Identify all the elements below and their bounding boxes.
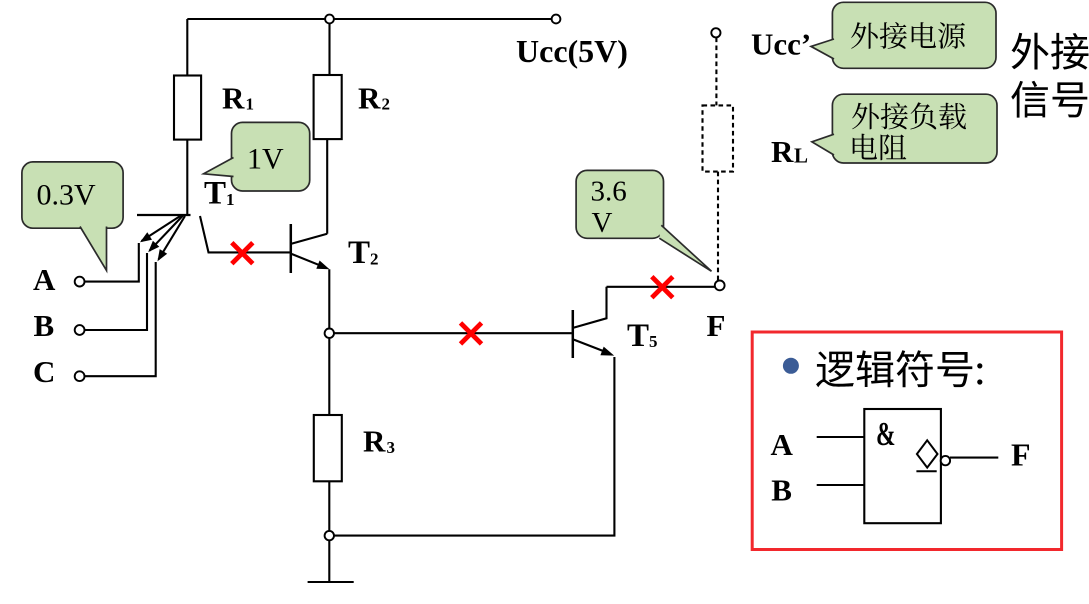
logic symbol panel frame	[752, 332, 1061, 550]
gate output wire	[950, 457, 998, 459]
svg-text:R: R	[771, 134, 794, 169]
open-collector diamond	[917, 440, 938, 467]
svg-text:T: T	[348, 235, 370, 271]
AND gate box U1	[864, 409, 941, 523]
svg-text:1: 1	[246, 95, 255, 114]
wire input B	[84, 253, 147, 330]
resistor R3	[314, 415, 342, 481]
T1 emitter 1	[142, 216, 182, 242]
gate input B wire	[817, 484, 865, 486]
label 外接负载	[852, 103, 879, 130]
T2 collector	[292, 234, 327, 244]
svg-text:1: 1	[226, 190, 235, 209]
T1 emitter 3	[159, 216, 186, 260]
T1 emitter 2	[150, 216, 184, 251]
label colon	[977, 363, 982, 368]
svg-text:R: R	[363, 424, 386, 459]
svg-text:A: A	[33, 262, 56, 297]
ground	[308, 581, 354, 583]
resistor R1	[174, 76, 201, 140]
wire N1 to R3	[328, 338, 330, 415]
callout wai-jie-fu-zai-dian-zu (external load resistor)	[832, 94, 997, 163]
svg-text:3.6: 3.6	[591, 176, 627, 208]
svg-text:B: B	[34, 308, 55, 343]
wire T5 emitter return	[334, 357, 614, 536]
svg-text:F: F	[707, 308, 726, 343]
node N2	[325, 531, 334, 540]
wire N1 to T5 base	[334, 332, 572, 334]
fault mark X2	[461, 323, 482, 344]
svg-text:&: &	[876, 416, 896, 453]
svg-text:2: 2	[382, 95, 391, 114]
terminal F	[715, 281, 725, 291]
wire R1 top lead	[186, 19, 188, 76]
T5 emitter	[574, 340, 610, 354]
svg-text:2: 2	[370, 250, 379, 269]
wire R2 top lead	[328, 23, 330, 75]
wire R2 bottom lead to T2 collector	[326, 139, 328, 234]
label 外接电源	[851, 22, 878, 49]
svg-text:B: B	[771, 473, 792, 508]
gate input A wire	[817, 436, 865, 438]
callout 1V	[232, 122, 310, 191]
bullet	[783, 358, 799, 374]
T5 collector	[574, 287, 607, 328]
terminal C	[75, 371, 85, 381]
callout 0.3V	[22, 162, 123, 228]
T1 collector lead	[200, 216, 290, 252]
wire R1 bottom lead	[186, 140, 188, 215]
terminal Ucc&apos;	[711, 28, 720, 37]
node top rail junction	[325, 15, 334, 24]
fault mark X1	[232, 243, 253, 264]
wire input A	[84, 243, 138, 282]
wire T2 emitter down	[328, 269, 330, 328]
dashed wire Ucc to RL	[715, 38, 717, 106]
svg-text:1V: 1V	[247, 143, 284, 176]
svg-text:Ucc’: Ucc’	[751, 27, 811, 62]
transistor T2 base bar	[290, 224, 293, 273]
svg-text:3: 3	[387, 438, 396, 457]
inverter bubble	[941, 456, 950, 465]
terminal B	[75, 325, 85, 335]
dashed wire RL to F	[717, 172, 719, 281]
wire top supply rail	[187, 18, 552, 20]
wire R3 to N2	[328, 481, 330, 531]
transistor T1 base bar	[137, 214, 191, 216]
svg-text:Ucc(5V): Ucc(5V)	[516, 33, 628, 69]
wire T5 collector to F	[607, 286, 715, 288]
ground lead	[328, 540, 330, 582]
resistor R2	[314, 75, 342, 139]
svg-text:R: R	[358, 81, 381, 116]
svg-text:T: T	[204, 176, 226, 212]
transistor T5 base bar	[572, 310, 575, 358]
callout wai-jie-dian-yuan (external power)	[832, 2, 996, 68]
svg-text:V: V	[592, 207, 613, 239]
wire input C	[84, 262, 155, 376]
svg-text:0.3V: 0.3V	[37, 179, 97, 212]
svg-text:5: 5	[649, 332, 658, 351]
fault mark X3	[652, 277, 673, 298]
svg-text:A: A	[771, 427, 794, 462]
terminal A	[75, 277, 85, 287]
svg-text:C: C	[33, 354, 55, 389]
node N1	[325, 329, 334, 338]
callout 3.6V	[576, 170, 663, 238]
label 外接 (top-right big)	[1012, 33, 1049, 70]
svg-text:T: T	[627, 318, 649, 354]
T2 emitter	[292, 254, 326, 268]
terminal Ucc(5V)	[552, 15, 561, 24]
label 逻辑符号	[816, 351, 854, 387]
resistor RL dashed body	[703, 105, 734, 171]
svg-text:R: R	[222, 81, 245, 116]
svg-text:L: L	[794, 144, 808, 168]
svg-text:F: F	[1011, 436, 1031, 472]
label 信号	[1011, 81, 1048, 118]
label 电阻	[853, 134, 877, 160]
